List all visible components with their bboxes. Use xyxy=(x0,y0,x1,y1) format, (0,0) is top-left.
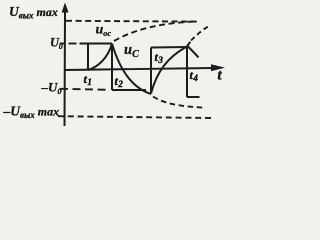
time axis arrowhead xyxy=(211,64,225,71)
horizontal time axis xyxy=(65,68,214,70)
u_C discharging curve t2-t3 xyxy=(112,44,151,95)
vertical voltage axis xyxy=(64,12,67,126)
u_os square wave: first high segment at +U0 xyxy=(80,43,113,45)
u_os low segment at -U0 xyxy=(112,89,146,91)
u_os rising edge at t3 xyxy=(150,48,152,94)
u_os low segment after t4 xyxy=(187,96,200,98)
-U0 tick and dashed level line xyxy=(60,89,108,90)
u_os rising step at t1 xyxy=(87,44,89,71)
u_os falling edge at t4 xyxy=(186,46,188,97)
u_os second high segment at +U0 xyxy=(151,46,187,49)
U0 leading dash xyxy=(69,43,77,45)
U0 tick on axis xyxy=(60,43,66,45)
dashed exponential continuation toward +Uvyx max after t2 xyxy=(114,21,196,41)
u_os falling edge at t2 xyxy=(111,44,113,91)
u_C charging curve t3-t4 xyxy=(151,47,187,94)
background paper xyxy=(0,0,235,130)
svg-text:Uвых max: Uвых max xyxy=(9,4,58,21)
+Uvyx max dashed level line xyxy=(66,20,197,23)
u_C discharging start after t4 xyxy=(188,47,199,58)
dashed discharge continuation toward -Uvyx max after t3 xyxy=(153,97,204,108)
dashed exponential continuation after t4 xyxy=(191,27,208,41)
u_C solid tail above corner at t4 xyxy=(187,42,191,47)
u_C charging curve t1-t2 xyxy=(88,44,112,71)
vertical axis arrowhead xyxy=(62,3,69,13)
-Uvyx max dashed level line xyxy=(58,116,212,118)
